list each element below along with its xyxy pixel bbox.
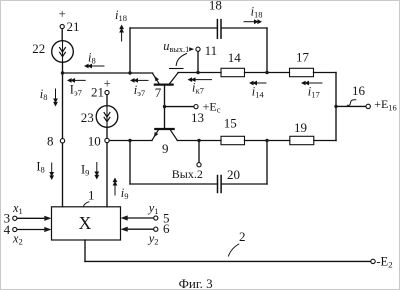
svg-text:8: 8 — [47, 134, 54, 149]
wire top-right horizontal (cap18 right lead) — [221, 27, 267, 29]
wire feedback vertical x=130 down to cap20 row — [129, 141, 131, 185]
transistor 9 — [152, 129, 177, 141]
svg-text:17: 17 — [296, 50, 310, 65]
resistor 19 — [290, 136, 314, 144]
node 11 terminal — [196, 47, 200, 51]
current arrow iк7 (leftward) — [188, 77, 212, 82]
svg-text:1: 1 — [88, 187, 95, 202]
node 6 terminal — [154, 227, 158, 231]
current arrow i8 on emitter wire (leftward) — [84, 64, 104, 69]
block X (element 1) — [52, 207, 121, 240]
svg-text:21: 21 — [91, 84, 104, 99]
transistor 7 — [153, 73, 179, 85]
terminal 16 (+E16) — [366, 104, 370, 108]
svg-text:+E16: +E16 — [374, 97, 397, 112]
svg-text:7: 7 — [155, 85, 162, 100]
current arrow i17 (leftward) — [301, 81, 322, 86]
current arrow iэ7 (leftward) — [130, 78, 148, 83]
current arrow i14 (leftward) — [249, 81, 266, 86]
resistor 15 — [221, 136, 245, 144]
wire between resistor 14 and resistor 17 — [245, 72, 290, 74]
leader for label 2 — [229, 244, 239, 256]
wire input x2 to block X — [17, 229, 45, 231]
svg-text:-E2: -E2 — [376, 254, 392, 269]
svg-text:2: 2 — [239, 229, 246, 244]
wire input y2 to block X — [127, 228, 153, 230]
svg-text:Вых.2: Вых.2 — [172, 167, 203, 181]
terminal Вых.2 — [197, 163, 201, 167]
arrow of u_vyh1 pointing to node 11 — [189, 47, 194, 51]
svg-text:+Ec: +Ec — [203, 99, 221, 114]
svg-text:x1: x1 — [12, 201, 23, 216]
svg-text:15: 15 — [224, 115, 237, 130]
wire input x1 to block X — [17, 217, 45, 219]
junction cap18 vertical / resistor row — [265, 71, 268, 74]
wire vertical x=130 from top wire down to emitter row — [129, 28, 131, 73]
junction feedback vertical / emitter row 9 — [128, 139, 131, 142]
current source 23 — [96, 106, 118, 128]
current arrow i18 left (up) — [119, 25, 124, 42]
svg-text:Iэ7: Iэ7 — [70, 82, 82, 97]
junction Вых.2 stub / collector row 9 — [197, 139, 200, 142]
svg-text:i9: i9 — [121, 186, 129, 201]
svg-text:4: 4 — [4, 222, 11, 237]
junction cap20 vertical / resistor 19 row — [265, 139, 268, 142]
terminal -E2 — [371, 259, 375, 263]
leader for label 1 — [83, 202, 88, 207]
current arrow I8 (down) — [49, 163, 54, 180]
wire cap20 row left lead — [130, 183, 217, 185]
wire node 11 stub — [197, 51, 199, 72]
wire tap to node 13 (+Ec) — [165, 106, 194, 108]
svg-text:I8: I8 — [36, 159, 44, 174]
terminal 21 (top, source 22) — [60, 24, 64, 28]
resistor 14 — [221, 68, 245, 76]
node 3 terminal — [13, 216, 17, 220]
wire between resistor 15 and resistor 19 — [245, 140, 290, 142]
wire terminal 21 to current source 22 — [61, 29, 63, 41]
svg-text:i18: i18 — [251, 5, 263, 20]
svg-text:13: 13 — [191, 110, 204, 125]
node 10 terminal — [105, 138, 109, 142]
svg-text:19: 19 — [294, 120, 307, 135]
svg-text:i14: i14 — [252, 84, 265, 99]
svg-text:iэ7: iэ7 — [134, 83, 145, 98]
arrow into X from y1 — [121, 215, 128, 220]
svg-text:21: 21 — [67, 19, 80, 34]
svg-text:i17: i17 — [308, 84, 320, 99]
wire node 8 down to block X — [62, 143, 64, 207]
wire cap20 row right lead — [221, 183, 267, 185]
node 13 terminal (+Ec) — [194, 105, 198, 109]
svg-text:9: 9 — [162, 141, 169, 156]
svg-text:+: + — [59, 7, 66, 21]
wire resistor 19 to right vertical — [314, 140, 336, 142]
current source 22 — [52, 41, 74, 63]
svg-text:14: 14 — [228, 50, 242, 65]
wire current source 22 down to node 8 — [62, 62, 64, 138]
wire emitter row of transistor 7 — [63, 72, 153, 74]
current arrow i8 left vertical (down) — [53, 89, 58, 107]
arrow into X from x1 — [44, 216, 51, 221]
svg-text:i8: i8 — [88, 51, 96, 66]
svg-text:16: 16 — [352, 83, 366, 98]
junction +E16 tap — [334, 105, 337, 108]
svg-text:18: 18 — [209, 1, 222, 13]
wire node 10 to emitter of transistor 9 — [109, 140, 152, 142]
node 5 terminal — [154, 216, 158, 220]
resistor 17 — [290, 68, 314, 76]
wire node 10 down to block X — [106, 143, 108, 207]
junction base / node 13 tap — [163, 105, 166, 108]
svg-text:uвых.1: uвых.1 — [163, 39, 189, 54]
wire input y1 to block X — [127, 217, 153, 219]
svg-text:X: X — [79, 213, 92, 233]
current arrow I9 (down) — [94, 163, 99, 180]
wire vertical x=267 from cap18 row down to resistor row — [266, 28, 268, 73]
capacitor C20 — [218, 176, 222, 193]
wire right vertical x=336 — [335, 73, 337, 141]
capacitor C18 — [217, 20, 221, 39]
current arrow Iэ7 (leftward) — [67, 78, 85, 83]
svg-text:11: 11 — [205, 43, 218, 58]
node 4 terminal — [13, 227, 17, 231]
wire block X bottom stub — [84, 240, 86, 261]
svg-text:i8: i8 — [40, 87, 48, 102]
svg-text:I9: I9 — [81, 162, 89, 177]
svg-text:22: 22 — [32, 41, 45, 56]
leader for label 16 — [347, 100, 355, 106]
wire current source 23 down to node 10 — [106, 127, 108, 138]
svg-text:+: + — [104, 77, 111, 91]
svg-text:Фиг. 3: Фиг. 3 — [179, 276, 213, 289]
arrow into X from y2 — [121, 227, 128, 232]
wire tap to terminal 16 (+E16) — [336, 105, 366, 107]
svg-text:x2: x2 — [12, 231, 23, 246]
wire collector row of transistor 7 to resistor 14 — [178, 72, 221, 74]
svg-text:y2: y2 — [147, 231, 159, 246]
arrow into X from x2 — [44, 227, 51, 232]
svg-text:10: 10 — [88, 134, 101, 149]
svg-text:y1: y1 — [147, 201, 159, 216]
wire collector row of transistor 9 to resistor 15 — [177, 140, 221, 142]
node 8 terminal — [60, 139, 64, 143]
svg-text:20: 20 — [227, 167, 240, 182]
current arrow i18 right (rightward) — [244, 19, 262, 24]
svg-text:i18: i18 — [115, 8, 127, 23]
wire base link between transistors 7 and 9 — [164, 85, 166, 130]
junction top wire / emitter row — [128, 71, 131, 74]
leader for u_vyh1 with reference dash — [176, 54, 186, 66]
wire 2 bottom rail to -E2 — [85, 260, 371, 262]
svg-text:23: 23 — [81, 110, 94, 125]
terminal 21 (source 23) — [105, 90, 109, 94]
wire terminal 21 to current source 23 — [106, 95, 108, 106]
wire resistor 17 to right vertical — [314, 72, 337, 74]
svg-text:6: 6 — [163, 221, 170, 236]
svg-text:iк7: iк7 — [192, 80, 204, 95]
current arrow i9 (up) — [113, 178, 118, 196]
junction at source 22 / emitter row — [61, 71, 64, 74]
wire cap20 vertical up to resistor 19 row — [266, 141, 268, 185]
wire stub to terminal Вых.2 — [198, 141, 200, 163]
junction node 11 / collector row — [196, 71, 199, 74]
wire top-left horizontal (cap18 left lead) — [130, 27, 217, 29]
